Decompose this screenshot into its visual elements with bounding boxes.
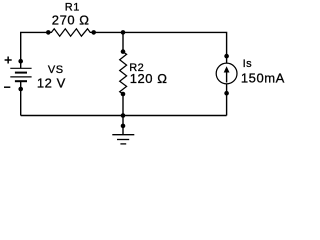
battery minus sign (4, 86, 10, 88)
battery VS (10, 59, 31, 91)
wire battery bottom pin down to bottom rail (20, 89, 22, 116)
wire node A down to R2 top pin (122, 32, 124, 51)
svg-text:12 V: 12 V (37, 75, 66, 90)
svg-text:R1: R1 (65, 1, 80, 13)
current source Is (216, 54, 237, 96)
wire battery top up and right to R1 left pin (21, 32, 49, 61)
wire ground stem (122, 116, 124, 135)
wire R2 bottom pin to bottom rail (122, 94, 124, 116)
svg-text:VS: VS (48, 64, 64, 76)
svg-text:120 Ω: 120 Ω (130, 71, 168, 86)
wire from node A right along top and down to current source top pin (123, 32, 227, 56)
svg-text:Is: Is (243, 58, 253, 70)
junction node A (top rail to R2 branch) (121, 30, 126, 35)
ground (112, 124, 134, 144)
svg-text:150mA: 150mA (241, 71, 285, 86)
resistor R2 (120, 49, 127, 96)
wire bottom rail (21, 115, 227, 117)
battery plus sign (5, 57, 12, 64)
junction node B (bottom rail to ground) (121, 113, 126, 118)
resistor R1 (46, 29, 96, 36)
wire bottom rail right end up to current source bottom pin (226, 93, 228, 115)
svg-text:270 Ω: 270 Ω (52, 13, 90, 28)
wire from R1 right pin to node A (94, 31, 123, 33)
